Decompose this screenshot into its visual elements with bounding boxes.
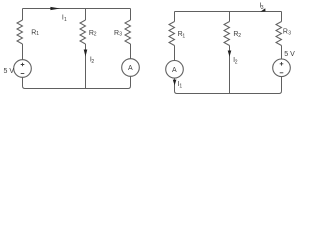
svg-text:2: 2 — [238, 33, 241, 39]
resistor R2 — [80, 20, 86, 44]
plus sign V1 — [21, 63, 25, 67]
wire bottom right circuit — [175, 91, 282, 94]
wire top left circuit — [23, 8, 131, 10]
ammeter A1 — [122, 59, 140, 77]
wire right branch middle — [130, 44, 132, 59]
current arrow I1 — [50, 7, 60, 10]
current arrow I1 down — [173, 80, 177, 86]
svg-text:1: 1 — [36, 31, 39, 37]
svg-text:2: 2 — [94, 32, 97, 38]
wire left branch middle — [22, 44, 24, 60]
svg-text:3: 3 — [288, 31, 291, 37]
wire right branch upper — [281, 12, 283, 22]
current arrow I3 — [260, 8, 265, 12]
wire middle branch lower — [85, 44, 87, 89]
wire left branch upper — [174, 12, 176, 22]
plus sign V2 — [280, 62, 284, 66]
wire top right circuit — [175, 11, 282, 13]
wire right branch upper — [130, 9, 132, 21]
resistor R1 right — [169, 22, 175, 46]
wire left branch middle — [174, 46, 176, 61]
svg-text:5 V: 5 V — [284, 51, 295, 58]
svg-text:3: 3 — [261, 5, 264, 11]
svg-text:3: 3 — [119, 32, 122, 38]
svg-text:A: A — [128, 65, 133, 72]
voltage source V1 — [14, 60, 32, 78]
wire right branch lower — [130, 76, 132, 86]
svg-text:1: 1 — [64, 17, 67, 23]
voltage source V2 — [273, 59, 291, 77]
svg-text:5 V: 5 V — [4, 68, 15, 75]
wire left branch lower — [22, 77, 24, 86]
resistor R3 — [125, 20, 131, 44]
minus sign V2 — [280, 72, 284, 74]
wire right branch middle — [281, 46, 283, 60]
wire bottom left circuit — [23, 86, 131, 89]
wire middle branch lower — [229, 46, 231, 94]
svg-text:A: A — [172, 67, 177, 74]
svg-text:1: 1 — [179, 83, 182, 89]
resistor R2 right — [224, 22, 230, 46]
minus sign V1 — [21, 73, 25, 75]
wire left branch lower — [174, 78, 176, 91]
svg-text:2: 2 — [235, 60, 238, 66]
current arrow I2 down — [228, 51, 232, 57]
resistor R3 right — [276, 22, 282, 46]
wire right branch lower — [281, 77, 283, 91]
wire middle branch upper — [229, 12, 231, 22]
wire middle branch upper — [85, 9, 87, 21]
current arrow I2 — [84, 50, 88, 57]
resistor R1 — [17, 20, 23, 44]
svg-text:2: 2 — [91, 59, 94, 65]
svg-text:1: 1 — [182, 33, 185, 39]
ammeter A2 — [166, 61, 184, 79]
wire left branch upper — [22, 9, 24, 21]
